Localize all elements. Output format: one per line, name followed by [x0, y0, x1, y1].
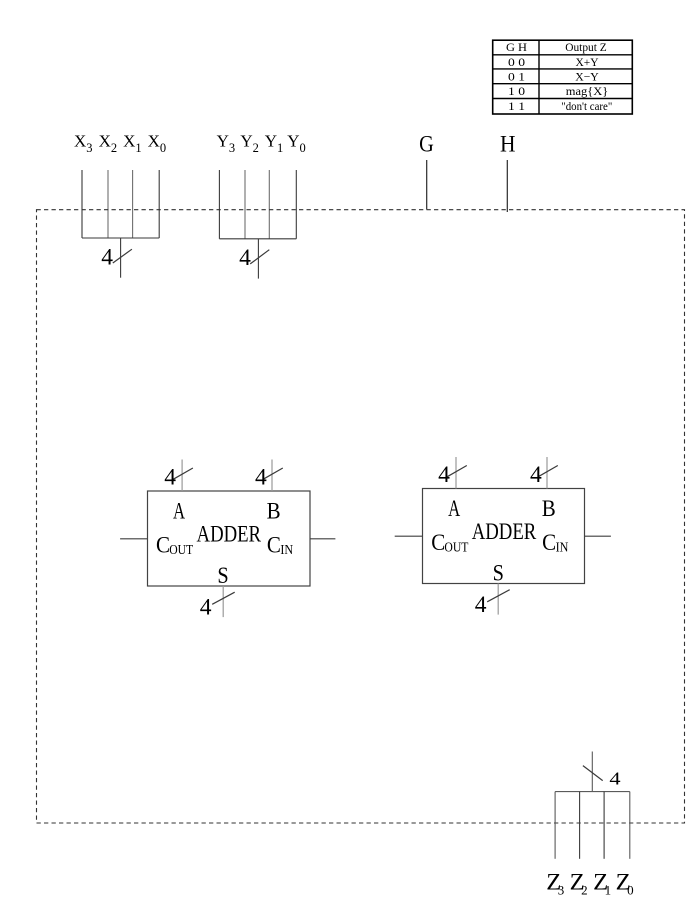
- adder U1 pin S wire: [222, 586, 224, 617]
- svg-text:Output Z: Output Z: [565, 40, 607, 54]
- svg-text:0 1: 0 1: [508, 70, 525, 84]
- adder U1 pin S width label 4: [200, 595, 212, 621]
- adder U1 pin A width label 4: [164, 465, 176, 491]
- svg-text:A: A: [448, 496, 460, 522]
- adder U2 label Cin: [542, 530, 568, 556]
- svg-text:X−Y: X−Y: [575, 70, 599, 84]
- svg-text:4: 4: [438, 462, 450, 488]
- adder U2 label B: [542, 496, 556, 522]
- svg-text:1: 1: [605, 882, 612, 897]
- dashed enclosure of arithmetic unit: [37, 210, 685, 823]
- wire Y0: [295, 170, 297, 239]
- adder U2 label A: [448, 496, 460, 522]
- wire Y2: [244, 170, 246, 239]
- svg-text:X+Y: X+Y: [576, 55, 599, 69]
- svg-text:4: 4: [475, 592, 487, 618]
- svg-text:3: 3: [558, 882, 565, 897]
- Z bus slash: [583, 766, 603, 781]
- adder U1 pin B width label 4: [255, 465, 267, 491]
- Y bus collector: [219, 239, 296, 279]
- adder U1 label ADDER: [197, 521, 262, 547]
- wire X0: [158, 170, 160, 238]
- svg-text:0 0: 0 0: [508, 55, 525, 69]
- output label Z1: [593, 869, 611, 897]
- adder U1 label A: [173, 498, 185, 524]
- wire Y1: [268, 170, 270, 239]
- input label X2: [99, 132, 118, 155]
- wire X3: [81, 170, 83, 238]
- output label Z2: [570, 869, 588, 897]
- adder U2 pin S width label 4: [475, 592, 487, 618]
- adder U1 pin A wire: [181, 460, 183, 492]
- svg-text:C: C: [156, 532, 170, 558]
- svg-text:4: 4: [609, 768, 620, 788]
- svg-text:4: 4: [530, 462, 542, 488]
- svg-text:G H: G H: [506, 40, 527, 54]
- wire H: [506, 160, 508, 212]
- adder U2 label ADDER: [472, 519, 537, 545]
- wire Z3: [554, 792, 556, 859]
- adder U2 label Cout: [431, 530, 469, 556]
- adder U1 label Cout: [156, 532, 194, 558]
- Z output feed wire: [591, 752, 593, 792]
- Y bus width label 4: [239, 245, 251, 271]
- svg-text:A: A: [173, 498, 185, 524]
- svg-text:C: C: [542, 530, 556, 556]
- table row: 0 1 | X-Y: [508, 70, 599, 84]
- input label Y0: [287, 132, 306, 155]
- wire G: [426, 160, 428, 210]
- X bus width label 4: [101, 245, 113, 271]
- svg-text:S: S: [217, 563, 228, 589]
- X bus collector: [82, 238, 159, 278]
- table row: 1 1 | "don't care": [508, 99, 612, 113]
- wire Y3: [218, 170, 220, 239]
- svg-text:ADDER: ADDER: [472, 519, 537, 545]
- svg-text:1 0: 1 0: [508, 84, 525, 98]
- input label X3: [74, 132, 93, 155]
- adder U1 pin Cin wire: [310, 538, 335, 540]
- adder U1 label S: [217, 563, 228, 589]
- input label H: [500, 132, 516, 158]
- adder U2 pin B width label 4: [530, 462, 542, 488]
- svg-text:G: G: [419, 132, 434, 158]
- svg-text:H: H: [500, 132, 516, 158]
- svg-text:4: 4: [239, 245, 251, 271]
- adder U1 body: [148, 491, 311, 586]
- adder U2 pin B slash: [538, 466, 558, 477]
- svg-text:0: 0: [627, 882, 634, 897]
- svg-text:1 1: 1 1: [508, 99, 525, 113]
- Z bus width label 4: [609, 768, 620, 788]
- adder U1 pin Cout wire: [120, 538, 147, 540]
- adder U2 pin A width label 4: [438, 462, 450, 488]
- svg-text:2: 2: [581, 882, 588, 897]
- input label G: [419, 132, 434, 158]
- svg-text:ADDER: ADDER: [197, 521, 262, 547]
- svg-text:mag{X}: mag{X}: [566, 84, 609, 98]
- output label Z3: [546, 869, 564, 897]
- svg-text:IN: IN: [556, 541, 569, 556]
- input label X1: [123, 132, 142, 155]
- svg-text:IN: IN: [280, 543, 293, 558]
- svg-text:S: S: [493, 560, 504, 586]
- Y bus slash: [250, 250, 269, 264]
- truth table: G H / Output Z: [492, 40, 632, 114]
- svg-text:B: B: [267, 498, 281, 524]
- table row: 0 0 | X+Y: [508, 55, 599, 69]
- adder U2 pin S wire: [497, 584, 499, 615]
- adder U1 pin S slash: [212, 592, 235, 604]
- svg-text:C: C: [267, 532, 281, 558]
- svg-text:B: B: [542, 496, 556, 522]
- adder U2 pin Cin wire: [585, 535, 611, 537]
- svg-text:C: C: [431, 530, 445, 556]
- adder U2 label S: [493, 560, 504, 586]
- table row: 1 0 | mag{X}: [508, 84, 608, 98]
- table header row: G H | Output Z: [506, 40, 607, 54]
- output label Z0: [616, 869, 634, 897]
- wire Z1: [603, 792, 605, 859]
- adder U2 body: [423, 489, 585, 584]
- adder U2 pin S slash: [487, 590, 510, 602]
- Z bus splitter: [555, 791, 630, 793]
- input label Y3: [217, 132, 236, 155]
- input label Y2: [240, 132, 259, 155]
- adder U2 pin A slash: [447, 466, 467, 477]
- adder U2 pin B wire: [546, 457, 548, 489]
- adder U1 label B: [267, 498, 281, 524]
- adder U1 pin B slash: [263, 468, 283, 479]
- svg-text:OUT: OUT: [169, 543, 193, 558]
- input label Y1: [265, 132, 284, 155]
- X bus slash: [113, 249, 132, 263]
- adder U2 pin Cout wire: [395, 535, 423, 537]
- adder U1 pin A slash: [173, 468, 193, 479]
- wire X2: [107, 170, 109, 238]
- adder U2 pin A wire: [455, 457, 457, 489]
- wire Z0: [629, 792, 631, 859]
- adder U1 label Cin: [267, 532, 293, 558]
- svg-text:4: 4: [200, 595, 212, 621]
- svg-text:"don't care": "don't care": [561, 99, 612, 113]
- svg-text:OUT: OUT: [444, 541, 468, 556]
- input label X0: [148, 132, 167, 155]
- wire Z2: [579, 792, 581, 859]
- svg-text:4: 4: [101, 245, 113, 271]
- adder U1 pin B wire: [271, 460, 273, 492]
- svg-text:4: 4: [164, 465, 176, 491]
- wire X1: [132, 170, 134, 238]
- svg-text:4: 4: [255, 465, 267, 491]
